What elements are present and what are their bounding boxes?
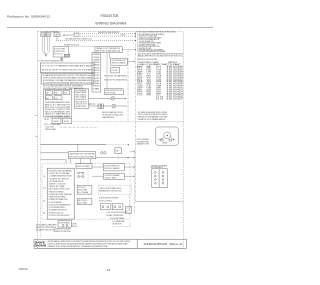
wire to oven lamp [89, 97, 111, 99]
svg-text:316 02450: 316 02450 [166, 85, 183, 87]
transformer secondary drops [70, 159, 72, 163]
svg-text:WH: WH [147, 68, 152, 70]
svg-text:NOTES: UNLESS OTHERWISE SPECIF: NOTES: UNLESS OTHERWISE SPECIFIED DOOR W… [137, 32, 176, 34]
lock switch box [77, 185, 92, 194]
svg-text:P4-3 VIOLET P4-4 RELAY SWITC: P4-3 VIOLET P4-4 RELAY SWITCH [104, 79, 128, 82]
right control column [92, 53, 101, 92]
wire transformer to rail [130, 151, 134, 153]
svg-text:SW 7-8 MOTOR: SW 7-8 MOTOR [75, 101, 87, 103]
title block bar [34, 239, 187, 248]
svg-text:BK W R OR Y BU GY V TN: BK W R OR Y BU GY V TN SWITCH MOTOR LOCK… [42, 70, 93, 72]
wire EOC to door latch upper [92, 166, 104, 168]
vertical dash-dot wire to lamp circuit [127, 50, 129, 123]
wire from thermal cutout [122, 49, 135, 51]
svg-text:316 02444: 316 02444 [166, 74, 183, 76]
svg-text:HELD OVEN: HELD OVEN [72, 226, 77, 228]
transformer box T1 [68, 152, 95, 159]
lower harness dashed enclosure [42, 163, 130, 219]
wire ground drop [49, 37, 51, 51]
door lock motor bracket feet [161, 139, 164, 141]
svg-text:ELECTRONIC OVEN CONN HARNESS: ELECTRONIC OVEN CONN HARNESS [49, 169, 73, 172]
contact circles beside transformer [101, 152, 103, 154]
wire lamp to node [115, 97, 126, 99]
wire neutral white (see note 2) [56, 40, 136, 42]
svg-text:TIMER OUT PANEL: TIMER OUT PANEL [45, 128, 56, 131]
relay K2 box [54, 91, 62, 95]
svg-text:SENSR: SENSR [137, 77, 143, 79]
svg-text:SW 5-6 SWITCH: SW 5-6 SWITCH [75, 99, 87, 101]
svg-text:TMR LIGHT: TMR LIGHT [63, 121, 69, 123]
svg-text:5 SWITCH: 5 SWITCH [93, 67, 100, 69]
svg-text:SHOWN DOOR OPEN CONN: SHOWN DOOR OPEN CONN [54, 231, 72, 233]
svg-text:RTD OVEN: RTD OVEN [112, 70, 119, 72]
svg-text:P7 1 2 3 4 5 6 7 8 9: P7 1 2 3 4 5 6 7 8 9 HARNESS OVEN BAKE B… [42, 64, 93, 67]
wire L1 black (see note 4) [74, 33, 136, 35]
cam switch box B [112, 204, 123, 210]
relay contact box center [115, 148, 122, 154]
svg-text:BROIL: BROIL [137, 68, 143, 70]
dashed ground return with hook [112, 222, 130, 227]
vertical dashed lead [129, 196, 131, 214]
title block divider [136, 239, 138, 248]
dashed divider under footnotes [136, 121, 183, 123]
wire bus to transformer [41, 152, 69, 154]
svg-text:P9-1 P9-2 CONTROL: P9-1 P9-2 CONTROL [99, 201, 112, 203]
latch assembly dashed box [98, 185, 131, 195]
svg-text:BU: BU [147, 75, 152, 77]
relay K4 box [45, 96, 52, 100]
wire membrane to lamp circuit with arrow [89, 103, 95, 105]
svg-text:13 DOOR SW RELAY SWITCH: 13 DOOR SW RELAY SWITCH [49, 206, 66, 209]
svg-text:P11 BK WH TIMER: P11 BK WH TIMER [110, 218, 125, 220]
svg-text:316 02452: 316 02452 [166, 89, 183, 91]
dashed link latch contacts [87, 164, 89, 185]
svg-text:6 MOTOR: 6 MOTOR [93, 70, 100, 72]
svg-text:GND WIRE CONTROL: GND WIRE CONTROL [75, 106, 86, 108]
svg-text:3 BROIL: 3 BROIL [93, 62, 100, 64]
svg-text:DIAGRAM: DIAGRAM [35, 245, 47, 248]
latch switch contacts left [154, 172, 156, 174]
svg-text:10.4: 10.4 [156, 83, 161, 85]
door lock motor assembly box [156, 127, 178, 145]
terminal strip TB2 [41, 63, 95, 73]
door latch box upper [104, 163, 125, 171]
door lock motor cam detail [166, 135, 168, 137]
svg-text:9. DISCONNECT POWER: 9. DISCONNECT POWER [137, 48, 152, 50]
dashed drop to door latch box [117, 154, 119, 164]
svg-text:316 02446: 316 02446 [166, 77, 183, 79]
oven lamp LT1 [111, 97, 115, 101]
svg-text:9 SENSOR IN NOTE PANEL: 9 SENSOR IN NOTE PANEL [49, 196, 66, 199]
chassis ground lug [64, 54, 70, 57]
svg-text:COM N.C. BROIL: COM N.C. BROIL [104, 177, 116, 179]
latch relay box [76, 164, 92, 169]
door latch box lower [104, 173, 125, 179]
node N [135, 40, 136, 41]
wire bottom of notes column to frame [136, 200, 184, 202]
wire black L1 feed [56, 37, 58, 41]
relay K1 box [45, 91, 52, 95]
svg-text:SEE NOTE 5 240V: SEE NOTE 5 240V [54, 54, 63, 56]
wire latch to rail upper [124, 166, 134, 168]
sensor stub box [111, 67, 120, 73]
svg-text:COM LOCK DOOR: COM LOCK DOOR [75, 104, 87, 106]
wire L1 drop [41, 37, 43, 51]
junction box terminal block TB1 [54, 33, 60, 37]
svg-text:UNLOCK NOTE: UNLOCK NOTE [78, 200, 87, 202]
wire EOC to door latch lower [92, 175, 104, 177]
svg-text:SWITCH TIMER: SWITCH TIMER [78, 189, 88, 191]
header rule [7, 27, 213, 29]
wire to lower enclosure [41, 159, 67, 161]
svg-text:316 02455: 316 02455 [166, 95, 183, 97]
svg-text:SWITCH DOOR WIRE: SWITCH DOOR WIRE [105, 93, 115, 95]
svg-text:P2 PTDB OUT DOOR WIRE CONTROL: P2 PTDB OUT DOOR WIRE CONTROL [49, 215, 70, 217]
svg-text:Publication No. 5995434012: Publication No. 5995434012 [7, 15, 50, 19]
svg-text:316 02448: 316 02448 [166, 81, 183, 83]
svg-text:GN: GN [147, 87, 152, 89]
vertical separator notes column [135, 31, 137, 201]
clock output box B [63, 118, 72, 124]
svg-text:59954340: 59954340 [19, 269, 29, 271]
bus drop to transformer [77, 144, 79, 151]
svg-text:9 240V SENSOR: 9 240V SENSOR [93, 78, 100, 80]
svg-text:K4 LOCK MOTOR 120V 60Hz R: K4 LOCK MOTOR 120V 60Hz RELAY SWITCH MOT… [43, 82, 93, 85]
svg-text:3.5W: 3.5W [156, 79, 162, 81]
clock output box A [52, 118, 61, 124]
svg-text:J-BOX: J-BOX [55, 35, 60, 37]
svg-text:(SEE NOTE 1): (SEE NOTE 1) [62, 35, 74, 37]
svg-text:DOOR LOCK WIRE: DOOR LOCK WIRE [54, 49, 65, 51]
relay connector table [42, 74, 95, 85]
door switch box bottom-left [58, 221, 71, 228]
inner left dashed rail [39, 63, 41, 239]
wire channel verticals [106, 53, 108, 89]
arrowhead to junction box [45, 55, 47, 57]
svg-text:11 LOCK SW HARNESS: 11 LOCK SW HARNESS [49, 201, 63, 204]
svg-text:OVEN LIGHT MOTOR LOCK: OVEN LIGHT MOTOR LOCK [105, 90, 122, 92]
svg-text:DISCONNECTION MOTOR LOCK: DISCONNECTION MOTOR LOCK [36, 230, 56, 232]
wire main bus neutral [41, 143, 107, 145]
svg-text:316 02453: 316 02453 [166, 91, 183, 93]
fuse block F2 [46, 33, 50, 37]
svg-text:14 CHASSIS GND MOTOR: 14 CHASSIS GND MOTOR [49, 209, 68, 212]
svg-text:K3 CONN: K3 CONN [64, 93, 67, 95]
svg-text:WIRING DIAGRAM: WIRING DIAGRAM [95, 21, 126, 25]
svg-text:P2 P3 P4 P5 P6 SENSOR: P2 P3 P4 P5 P6 SENSOR LIGHT [39, 60, 64, 62]
latch switch contacts right [162, 172, 164, 174]
wire to courtesy lamp [89, 105, 112, 107]
dash-dot wire from timer [60, 126, 97, 128]
svg-text:316 02454: 316 02454 [166, 93, 183, 95]
svg-text:DOOR LOCK MOTOR 240V SENSOR: DOOR LOCK MOTOR 240V SENSOR [106, 212, 127, 214]
wire dashed bus continuation [106, 144, 129, 146]
svg-text:FEB24S7DB: FEB24S7DB [101, 14, 120, 18]
svg-text:2. WITH DOOR CLOSED LIGHT: 2. WITH DOOR CLOSED LIGHT [137, 36, 157, 38]
supply cable twist to arrow [42, 51, 46, 56]
lamp switch contact A [98, 104, 101, 109]
svg-text:K5 OVEN: K5 OVEN [55, 98, 58, 100]
svg-text:CONTROL EOC P1 OVEN BAKE: CONTROL EOC P1 OVEN BAKE [49, 172, 71, 175]
svg-text:TN: TN [147, 81, 152, 83]
unlock switch box [77, 199, 92, 205]
svg-text:YL: YL [147, 74, 152, 76]
svg-text:SW 1-2 BROIL: SW 1-2 BROIL [75, 94, 86, 96]
latch switch table divider [158, 169, 160, 188]
svg-text:K5 COOL FAN 120V WIRE CO: K5 COOL FAN 120V WIRE CONTROL 240V SENSO… [43, 84, 84, 87]
membrane switch box [75, 89, 89, 109]
relay K3 box [64, 91, 70, 95]
wire courtesy lamp to rail [116, 105, 127, 107]
svg-text:14 18: 14 18 [156, 97, 163, 99]
svg-text:316 02456: 316 02456 [166, 97, 183, 99]
svg-text:MDL: MDL [137, 79, 143, 81]
svg-text:12 UNLOCK SW OVEN BAKE BROIL: 12 UNLOCK SW OVEN BAKE BROIL [49, 203, 71, 206]
schematic outer dashed frame [38, 31, 184, 248]
svg-text:GROUND NOTE: GROUND NOTE [112, 224, 121, 226]
svg-text:120V SOCKET 2 REQD 240V: 120V SOCKET 2 REQD 240V [102, 114, 124, 116]
svg-text:8 WIRE CONTROL: 8 WIRE CONTROL [93, 75, 100, 77]
latch relay contacts [78, 172, 80, 174]
svg-text:316 02449: 316 02449 [166, 83, 183, 85]
svg-text:LOCK SW COM PANEL BOARD: LOCK SW COM PANEL BOARD [45, 115, 71, 118]
svg-text:316 02442: 316 02442 [166, 70, 183, 72]
oven sensor box [111, 58, 128, 65]
relay K5 box [54, 96, 62, 100]
door lock assembly box [53, 47, 68, 57]
svg-text:GRN: GRN [137, 87, 143, 89]
svg-text:P10 240V: P10 240V [44, 119, 49, 121]
svg-text:WIRE COLOR CODE DOOR WIRE: WIRE COLOR CODE DOOR WIRE [137, 59, 157, 61]
svg-text:MOTOR: MOTOR [137, 70, 143, 72]
cam switch box A [101, 204, 111, 210]
svg-text:LOCK LIGHT: LOCK LIGHT [78, 187, 86, 189]
svg-text:316 02443: 316 02443 [166, 72, 183, 74]
wire neutral drop [44, 37, 46, 53]
svg-text:GY: GY [147, 79, 152, 81]
svg-text:P4-1 VIOLET P4-2 BAKE BROIL: P4-1 VIOLET P4-2 BAKE BROIL [104, 75, 127, 78]
dashed net line mid [72, 121, 136, 123]
door lock motor cam circle [164, 132, 171, 139]
wire latch to rail lower [124, 175, 134, 177]
harness connector at wire start [74, 33, 79, 36]
svg-text:0.33: 0.33 [156, 70, 161, 72]
svg-text:MOTOR CAM SW DOOR WIRE: MOTOR CAM SW DOOR WIRE [99, 197, 119, 200]
svg-text:RED MOTOR: RED MOTOR [121, 35, 125, 37]
wire center row [96, 157, 134, 159]
svg-text:316 02445: 316 02445 [166, 75, 183, 77]
svg-text:DLB: DLB [137, 81, 143, 83]
svg-text:3. OVEN COOL LIGHTS OFF TIMER: 3. OVEN COOL LIGHTS OFF TIMER [137, 37, 162, 39]
svg-text:1091: 1091 [156, 77, 161, 79]
svg-text:10 LIGHT: 10 LIGHT [93, 80, 100, 82]
svg-text:10.8: 10.8 [156, 66, 161, 68]
wire L2 drop [47, 37, 49, 51]
node TCO [135, 49, 136, 50]
svg-text:4 BAKE N.O. LOCK DOOR: 4 BAKE N.O. LOCK DOOR [49, 183, 67, 186]
thermal cutout note box [95, 47, 122, 53]
svg-text:316 02440: 316 02440 [166, 66, 183, 68]
wire sensor to rail [127, 60, 134, 62]
svg-text:14.1: 14.1 [156, 68, 161, 70]
svg-text:316 02451: 316 02451 [166, 87, 183, 89]
svg-text:7 FAN MOTOR SENSOR: 7 FAN MOTOR SENSOR [49, 190, 65, 193]
vertical rail right of lower section [133, 150, 135, 214]
svg-text:1 L1 BAKE RELAY BROIL RELAY: 1 L1 BAKE RELAY BROIL RELAY [49, 175, 73, 178]
left frame tick marks [35, 114, 37, 116]
svg-text:316 02447: 316 02447 [166, 79, 183, 81]
svg-text:11 TIMER: 11 TIMER [93, 83, 100, 85]
svg-text:VT: VT [147, 77, 152, 79]
oven lamp switch label box [104, 89, 123, 95]
latch switch table box [152, 169, 168, 188]
fuse block F1 [41, 33, 46, 37]
svg-text:316 02441: 316 02441 [166, 68, 183, 70]
svg-text:RED (SEE NOTE 3) DOOR: RED (SEE NOTE 3) DOOR [64, 45, 80, 47]
svg-text:6 MDL RELAY CONTROL 240V: 6 MDL RELAY CONTROL 240V [49, 188, 71, 191]
electronic oven control outline [44, 90, 72, 118]
svg-text:0.40: 0.40 [156, 72, 161, 74]
svg-text:0.80: 0.80 [156, 74, 161, 76]
svg-text:10 SENSOR RTN BOARD CONN: 10 SENSOR RTN BOARD CONN [49, 198, 69, 201]
lamp switch contact B [101, 104, 103, 109]
node L1 [135, 33, 136, 34]
courtesy lamp LT2 [112, 104, 116, 108]
svg-text:P1: P1 [43, 188, 46, 190]
node L2 [135, 36, 136, 37]
lock motor hatched box M [125, 206, 131, 213]
svg-text:316024518 Rev A: 316024518 Rev A [143, 242, 182, 246]
electronic oven control EOC box [47, 168, 74, 219]
ground symbol [61, 57, 63, 59]
svg-text:7 LOCK DOOR: 7 LOCK DOOR [93, 73, 100, 75]
svg-text:CLK SENSOR: CLK SENSOR [53, 121, 59, 123]
latch switch mech link [158, 171, 160, 186]
wire L2 red [74, 35, 136, 37]
svg-text:8 OVEN LIGHT LIGHT TIMER FAN: 8 OVEN LIGHT LIGHT TIMER FAN [49, 193, 73, 196]
svg-text:16 18: 16 18 [156, 99, 163, 101]
svg-text:316 02457: 316 02457 [166, 99, 183, 101]
